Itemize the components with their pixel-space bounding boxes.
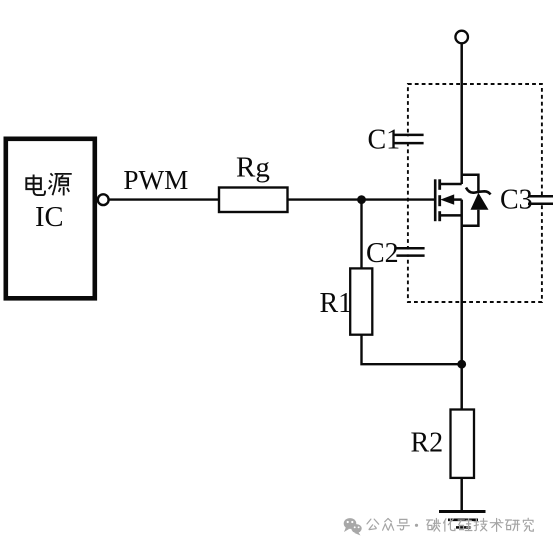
char 硅 xyxy=(458,519,472,531)
char 究 xyxy=(523,518,533,531)
watermark icon (chat bubbles) xyxy=(344,518,362,535)
top drain terminal xyxy=(455,31,468,44)
svg-text:R1: R1 xyxy=(320,288,353,319)
watermark text 公众号·碳化硅技术研究 xyxy=(367,519,409,531)
wire Rg to gate xyxy=(288,198,435,200)
body diode D1 triangle xyxy=(471,193,489,210)
capacitor C2 xyxy=(396,247,424,250)
power IC box U1 xyxy=(6,139,95,298)
char 化 xyxy=(444,519,455,531)
char 技 xyxy=(474,519,487,531)
transistor Q1 body arrow xyxy=(440,194,454,204)
wire R2 to ground xyxy=(460,478,463,512)
svg-text:PWM: PWM xyxy=(123,165,188,195)
label 电 (power IC text) xyxy=(26,175,45,196)
dashed package box xyxy=(408,84,542,302)
label 源 (power IC text) xyxy=(49,173,72,195)
ground symbol xyxy=(439,510,486,513)
transistor Q1 gate bar xyxy=(434,179,437,221)
output node circle on IC xyxy=(98,194,109,205)
transistor Q1 source stub xyxy=(440,214,462,217)
resistor Rg xyxy=(219,188,288,213)
svg-text:C2: C2 xyxy=(366,238,399,269)
white gap for C3 on dashed edge xyxy=(538,198,546,203)
char 研 xyxy=(506,520,520,531)
resistor R1 xyxy=(350,268,372,334)
white gap for C1 on dashed edge xyxy=(404,136,412,142)
wire node to R2 xyxy=(460,364,463,409)
char 公 xyxy=(367,519,379,530)
junction node gate/R1 xyxy=(357,195,366,204)
body diode D1 branch top jog xyxy=(462,175,479,193)
body diode D1 branch bottom jog xyxy=(462,210,479,226)
body diode D1 curved cathode xyxy=(466,188,491,195)
junction node source/R2 xyxy=(457,360,466,369)
wire drain vertical xyxy=(460,43,463,184)
char 众 xyxy=(383,519,394,531)
char 术 xyxy=(490,519,503,532)
transistor Q1 channel segments xyxy=(438,179,441,190)
capacitor C3 xyxy=(528,195,553,198)
svg-text:C1: C1 xyxy=(368,124,401,155)
white gap for C2 on dashed edge xyxy=(404,250,412,255)
separator dot xyxy=(415,524,418,527)
char 碳 xyxy=(427,519,441,532)
svg-text:C3: C3 xyxy=(500,185,533,216)
wire PWM from IC to Rg xyxy=(109,198,219,200)
svg-text:IC: IC xyxy=(35,202,64,233)
transistor Q1 drain stub xyxy=(440,183,462,186)
char 号 xyxy=(397,519,409,530)
resistor R2 xyxy=(451,410,475,478)
capacitor C1 xyxy=(394,134,423,137)
svg-text:R2: R2 xyxy=(411,428,444,459)
wire gate node down to R1 xyxy=(360,200,362,269)
wire source vertical down to node xyxy=(460,200,463,365)
wire R1 bottom to source node xyxy=(362,335,462,365)
svg-text:Rg: Rg xyxy=(236,152,270,184)
